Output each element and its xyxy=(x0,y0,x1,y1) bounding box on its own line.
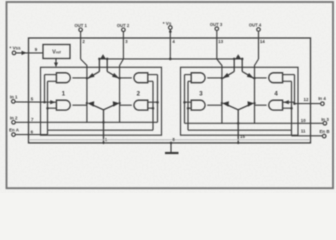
gate G5 (driver 3 upper, AND) xyxy=(191,73,222,83)
arrow into Vs rail bridge B xyxy=(236,54,241,58)
wire EnA right branch bridge A xyxy=(148,81,153,130)
wire Vref output arrow down xyxy=(55,59,57,64)
ground pin 8 stem xyxy=(170,143,172,153)
wire OUT3 internal xyxy=(217,59,222,123)
wire EnA vertical branch xyxy=(48,81,57,130)
junction dots cluster A corners xyxy=(86,77,88,79)
junction Vs rail / Vs feed xyxy=(169,58,172,61)
wire EnB vertical branch xyxy=(283,81,292,130)
terminal EnB xyxy=(292,130,327,138)
wire In4 vertical fork xyxy=(283,75,295,104)
arrow In4 into gate G8 xyxy=(284,100,289,104)
gate G8 (driver 4 lower, AND mirrored) xyxy=(255,100,283,110)
bridge B enclosure xyxy=(181,67,299,135)
terminal OUT4 xyxy=(257,28,261,59)
bridge A enclosure xyxy=(41,67,162,135)
gate G3 (driver 2 upper, AND mirrored) xyxy=(120,73,148,83)
sense B exit junction xyxy=(237,142,239,144)
Vs supply rail xyxy=(99,58,242,60)
arrow In1 into gate G2 xyxy=(50,100,55,104)
junction dots cluster A xyxy=(98,58,101,61)
transistor pair upper bridge B xyxy=(223,59,254,78)
sense A exit junction xyxy=(102,142,104,144)
terminal Vs xyxy=(169,26,173,59)
enable rail bridge B xyxy=(188,129,292,131)
arrow on Vss wire xyxy=(22,51,27,55)
wire In3 vertical branch xyxy=(185,75,192,124)
junction dots cluster B xyxy=(233,58,236,61)
ground symbol xyxy=(165,152,179,154)
wire In2 vertical branch xyxy=(148,75,158,123)
wire OUT1 internal xyxy=(81,59,87,122)
scan ghost line above box bottom xyxy=(29,139,310,141)
terminal EnA xyxy=(12,130,48,136)
wire EnB left branch bridge B xyxy=(188,81,191,130)
gate G4 (driver 2 lower, AND mirrored) xyxy=(120,100,148,110)
junction dots cluster B corners xyxy=(221,77,223,79)
transistor pair lower bridge B xyxy=(223,103,253,143)
terminal OUT2 xyxy=(122,28,126,59)
transistor pair lower bridge A xyxy=(89,103,118,143)
wire OUT2 internal xyxy=(120,59,124,122)
regulator block Vref xyxy=(43,45,70,59)
terminal In1 xyxy=(12,100,57,104)
terminal In2 xyxy=(12,121,158,125)
junction emitter A on In2 rail xyxy=(102,121,105,124)
transistor pair upper bridge A xyxy=(88,59,119,78)
wire OUT4 internal xyxy=(255,59,259,123)
gate G6 (driver 3 lower, AND) xyxy=(191,100,222,110)
gate G1 (driver 1 upper, AND) xyxy=(56,73,87,83)
terminal In4 xyxy=(283,102,325,106)
gate G7 (driver 4 upper, AND mirrored) xyxy=(255,73,283,83)
terminal OUT1 xyxy=(79,28,83,59)
junction emitter B on In3 rail xyxy=(237,122,240,125)
wire In1 vertical fork xyxy=(45,75,57,103)
terminal OUT3 xyxy=(215,27,219,59)
arrow into Vs rail bridge A xyxy=(100,54,105,58)
terminal Vss xyxy=(12,51,43,55)
terminal In3 xyxy=(185,122,327,126)
junction under Vs terminal xyxy=(169,30,172,33)
gate G2 (driver 1 lower, AND) xyxy=(56,100,87,110)
enable rail bridge A xyxy=(48,129,154,131)
IC package box U1 xyxy=(29,38,311,143)
figure frame xyxy=(7,2,334,188)
